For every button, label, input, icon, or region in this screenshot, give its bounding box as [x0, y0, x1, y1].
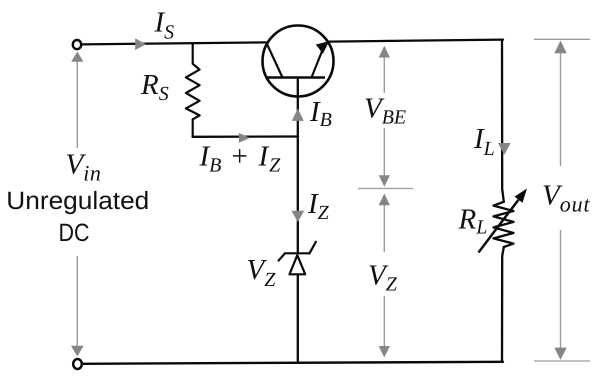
svg-text:Unregulated: Unregulated [6, 187, 149, 215]
svg-text:DC: DC [59, 219, 90, 247]
